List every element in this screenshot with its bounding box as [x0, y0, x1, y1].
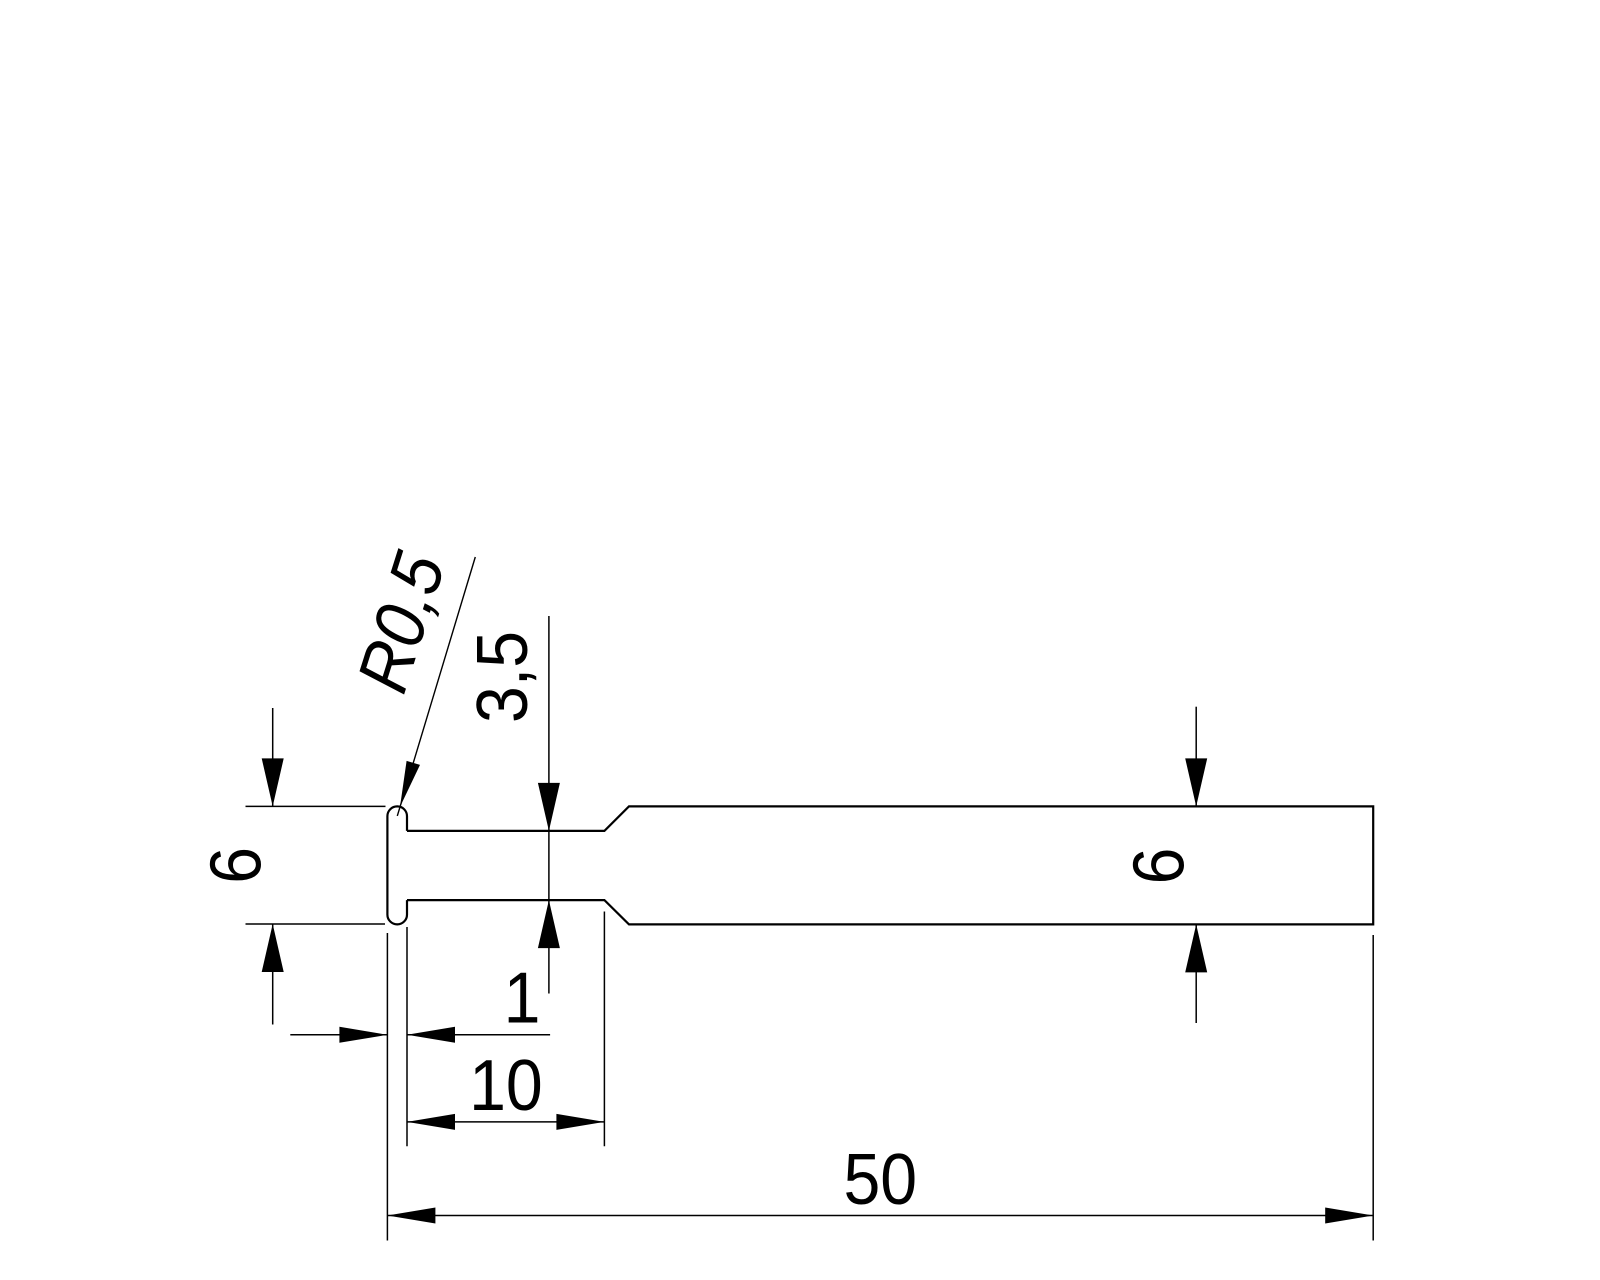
- dimension 1: value label 1: [504, 957, 541, 1038]
- radius leader R0,5: arrowhead: [393, 761, 420, 809]
- svg-text:3,5: 3,5: [461, 631, 542, 723]
- dimension 3,5: arrowhead bottom: [538, 900, 560, 948]
- dimension 6 right: value label 6: [1118, 848, 1199, 885]
- dimension 50: extension line right: [1372, 935, 1374, 1241]
- dimension 6 right: dimension line lower tail: [1195, 924, 1197, 1023]
- dimension 3,5: value label 3,5: [461, 631, 542, 723]
- radius leader R0,5: leader line: [397, 557, 475, 816]
- dimension 50: arrowhead left (points left): [387, 1208, 435, 1224]
- dimension 6 left: dimension line upper tail: [272, 708, 274, 806]
- dimension 10: dimension line: [407, 1121, 604, 1123]
- dimension 1: dimension line right tail: [407, 1034, 550, 1036]
- dimension 50: dimension line: [387, 1215, 1373, 1217]
- radius leader R0,5: value label R0,5: [341, 543, 461, 701]
- dimension 50: value label 50: [843, 1138, 917, 1219]
- dimension 10: extension line right: [603, 912, 605, 1147]
- dimension 6 left: arrowhead top: [262, 758, 284, 806]
- svg-text:6: 6: [1118, 848, 1199, 885]
- dimension 6 right: arrowhead top: [1185, 758, 1207, 806]
- svg-text:50: 50: [843, 1138, 917, 1219]
- svg-text:1: 1: [504, 957, 541, 1038]
- dimension 3,5: arrowhead top: [538, 783, 560, 831]
- part outline: flange (stadium, 1 x 6, R0,5 caps): [387, 806, 407, 924]
- dimension 50: arrowhead right (points right): [1325, 1208, 1373, 1224]
- dimension 10: arrowhead right (points right): [556, 1114, 604, 1130]
- svg-text:10: 10: [469, 1044, 543, 1125]
- dimension 10: value label 10: [469, 1044, 543, 1125]
- dimension 6 left: arrowhead bottom: [262, 924, 284, 972]
- dimension 6 left: extension line bottom: [246, 923, 386, 925]
- dimension 6 right: dimension line upper tail: [1195, 707, 1197, 807]
- dimension 6 left: dimension line lower tail: [272, 924, 274, 1025]
- dimension 3,5: dimension line: [548, 616, 550, 994]
- part outline: shaft profile (neck 3,5 / chamfers / bar 6 x 50): [407, 806, 1373, 924]
- svg-text:6: 6: [195, 847, 276, 884]
- dimension 6 left: value label 6: [195, 847, 276, 884]
- dimension 1: arrowhead right (points left): [407, 1027, 455, 1043]
- dimension 10: arrowhead left (points left): [407, 1114, 455, 1130]
- dimension 50: extension line left: [386, 933, 388, 1241]
- dimension 6 right: arrowhead bottom: [1185, 924, 1207, 972]
- dimension 10: extension line left: [406, 927, 408, 1146]
- dimension 1: dimension line left tail: [290, 1034, 387, 1036]
- dimension 6 left: extension line top: [246, 805, 386, 807]
- dimension 1: arrowhead left (points right): [339, 1027, 387, 1043]
